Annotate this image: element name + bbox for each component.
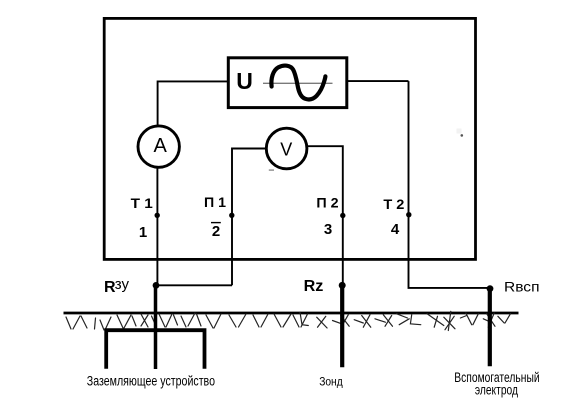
ammeter A — [138, 126, 179, 167]
wire U1 right lead — [347, 80, 409, 82]
earth hatching — [66, 311, 510, 330]
terminal T2 — [406, 212, 411, 217]
grounding conductor — [154, 285, 158, 369]
node Rзу junction — [153, 282, 160, 289]
svg-text:П 2: П 2 — [316, 194, 338, 210]
svg-text:4: 4 — [391, 221, 400, 238]
source U1 sine axis — [263, 82, 333, 84]
svg-text:Зонд: Зонд — [319, 375, 343, 389]
source U1 box — [228, 58, 346, 108]
svg-text:электрод: электрод — [475, 382, 518, 397]
instrument enclosure — [104, 18, 475, 259]
node Rвсп — [487, 285, 494, 292]
label Вспомогательный электрод — [454, 370, 539, 397]
svg-text:V: V — [280, 140, 292, 160]
grounding device electrode — [106, 330, 204, 369]
svg-text:Rвсп: Rвсп — [504, 280, 540, 295]
wire ammeter to terminal T1 — [156, 168, 158, 286]
label Rзу — [104, 276, 130, 296]
probe electrode — [340, 285, 344, 367]
wire U1 left lead — [158, 81, 229, 126]
auxiliary electrode — [488, 289, 492, 367]
wire П1 to ground junction — [156, 284, 232, 286]
node Rz — [339, 282, 346, 289]
svg-text:П 1: П 1 — [204, 194, 226, 210]
svg-text:1: 1 — [139, 224, 147, 241]
svg-text:Т 2: Т 2 — [383, 196, 404, 212]
svg-text:зу: зу — [115, 276, 130, 293]
wire voltmeter right to terminal П2 — [307, 146, 343, 285]
source U1 sine wave — [271, 66, 325, 100]
svg-text:Rz: Rz — [304, 278, 324, 295]
svg-text:Заземляющее устройство: Заземляющее устройство — [87, 373, 215, 388]
svg-text:A: A — [154, 135, 168, 157]
terminal T1 — [155, 213, 160, 218]
pin number 2 — [211, 223, 221, 240]
terminal П2 — [340, 213, 345, 218]
svg-text:2: 2 — [212, 223, 220, 240]
wire voltmeter left to terminal П1 — [232, 149, 266, 286]
svg-text:3: 3 — [324, 221, 332, 238]
terminal П1 — [229, 213, 234, 218]
svg-text:U: U — [236, 68, 253, 94]
wire T2 down to auxiliary node — [409, 81, 490, 288]
svg-text:Т 1: Т 1 — [131, 195, 153, 211]
earth surface line — [64, 312, 519, 315]
voltmeter V — [266, 128, 307, 171]
